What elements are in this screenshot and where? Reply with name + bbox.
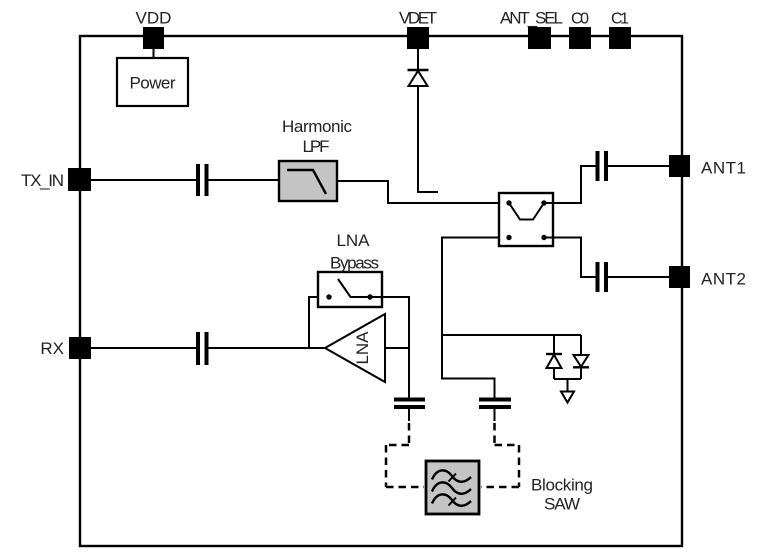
svg-text:VDD: VDD (136, 9, 172, 28)
pin VDET (399, 9, 437, 50)
svg-text:Harmonic: Harmonic (282, 117, 353, 136)
capacitor C-TX (series blocking) (198, 164, 207, 196)
wire (554, 378, 581, 380)
svg-text:LNA: LNA (337, 231, 371, 250)
wire (442, 238, 499, 399)
svg-text:C0: C0 (571, 11, 589, 28)
blocking SAW filter (426, 461, 593, 514)
wire (544, 166, 596, 203)
svg-text:ANT1: ANT1 (701, 159, 746, 178)
wire (494, 409, 496, 421)
pin ANT_SEL (500, 9, 563, 50)
svg-text:LPF: LPF (303, 137, 330, 156)
LNA bypass switch S1 (318, 231, 382, 307)
pin RX (40, 337, 91, 359)
ground (discharge arrow) (561, 392, 574, 403)
wire (608, 276, 669, 278)
wire (dashed) (386, 423, 424, 487)
wire (408, 409, 410, 421)
capacitor C-SAW (shunt) (479, 400, 511, 408)
wire (567, 379, 569, 391)
wire (91, 179, 196, 181)
pin C1 (609, 11, 631, 50)
wire (153, 49, 155, 58)
capacitor C-LNA (shunt) (394, 400, 425, 408)
svg-text:ANT2: ANT2 (701, 270, 746, 289)
wire (309, 297, 318, 348)
svg-text:TX_IN: TX_IN (21, 171, 64, 190)
wire (385, 347, 409, 349)
pin TX_IN (21, 168, 91, 191)
pin ANT2 (669, 266, 746, 289)
antenna switch U1 (499, 193, 553, 246)
svg-text:ANT_SEL: ANT_SEL (500, 9, 563, 28)
svg-text:VDET: VDET (399, 9, 437, 28)
wire (408, 348, 410, 398)
power block (117, 58, 188, 106)
diode D3 (ESD clamp, cathode down) (573, 335, 589, 379)
wire (91, 347, 196, 349)
amplifier LNA (325, 314, 385, 382)
capacitor C-ANT2 (series) (598, 262, 607, 292)
diode D1 (VDET detector) (408, 70, 429, 86)
wire (337, 181, 499, 203)
wire (209, 347, 326, 349)
wire (370, 297, 409, 348)
wire (209, 179, 280, 181)
pin VDD (136, 9, 172, 50)
wire (608, 165, 669, 167)
svg-text:Power: Power (130, 74, 176, 93)
wire (417, 49, 419, 70)
pin ANT1 (669, 155, 746, 178)
module boundary (80, 36, 682, 546)
svg-text:LNA: LNA (353, 331, 372, 365)
svg-text:Bypass: Bypass (330, 254, 379, 273)
capacitor C-RX (series blocking) (198, 332, 207, 365)
pin C0 (569, 11, 591, 50)
svg-text:C1: C1 (611, 11, 629, 28)
wire (442, 334, 581, 336)
harmonic LPF block (279, 117, 353, 201)
capacitor C-ANT1 (series) (598, 151, 607, 181)
svg-text:RX: RX (40, 339, 64, 358)
wire (418, 86, 438, 192)
svg-text:Blocking: Blocking (531, 476, 593, 495)
svg-text:SAW: SAW (544, 495, 580, 514)
diode D2 (ESD clamp, cathode up) (546, 335, 562, 379)
wire (dashed) (481, 423, 519, 487)
wire (544, 238, 596, 278)
